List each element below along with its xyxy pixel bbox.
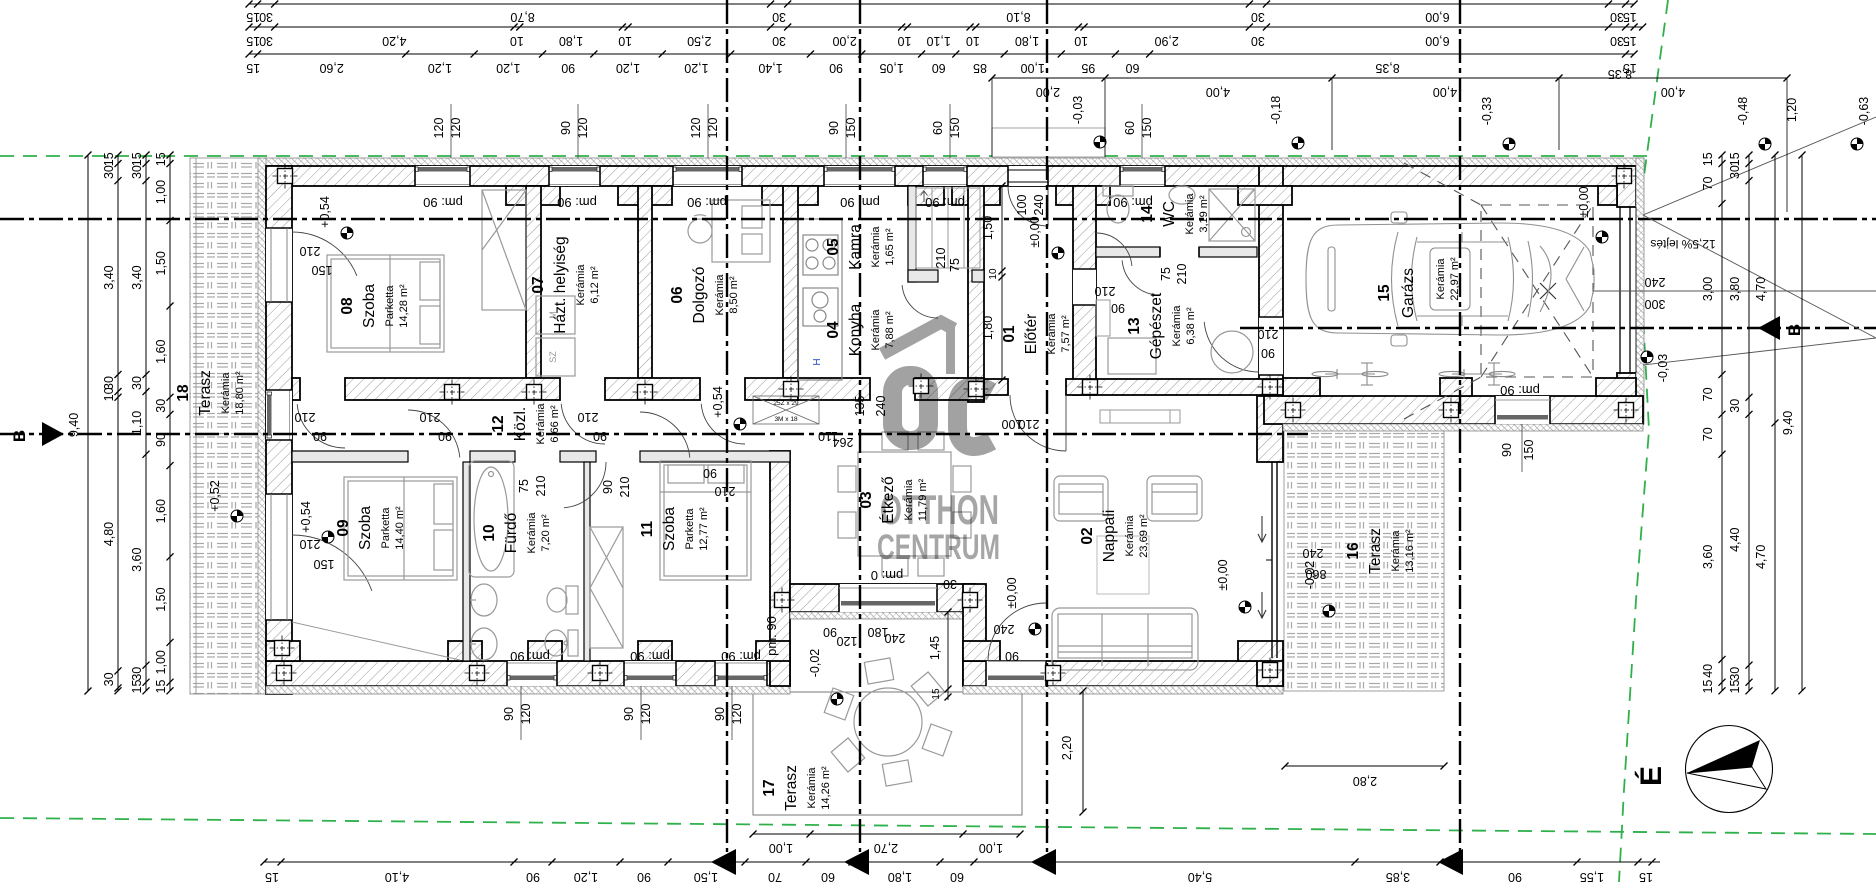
svg-text:1,20: 1,20 [616,61,640,75]
partition konyha|eloter [968,186,984,402]
window room 11 90/120 [715,661,767,686]
svg-text:3,85: 3,85 [1386,870,1410,882]
svg-text:15: 15 [1376,284,1393,302]
pier axis mark [272,661,297,686]
room label 11 Szoba [639,507,710,551]
svg-text:Szoba: Szoba [357,506,374,550]
sinks room 10 [470,584,497,660]
nappali armchair 1 [1054,476,1108,521]
svg-text:15: 15 [246,61,260,75]
svg-text:07: 07 [530,276,547,293]
room label 17 Terasz [761,765,832,811]
svg-text:8,35: 8,35 [1608,67,1632,81]
structural axis V4 [1459,0,1461,852]
svg-text:1,60: 1,60 [154,499,168,523]
svg-text:135: 135 [853,396,867,417]
svg-text:13,16 m²: 13,16 m² [1404,529,1416,573]
svg-text:Kerámia: Kerámia [870,226,882,268]
svg-text:210: 210 [300,244,321,258]
svg-text:±0,00: ±0,00 [1005,577,1019,608]
level benchmark [1596,231,1608,243]
svg-text:08: 08 [339,297,356,315]
svg-text:860: 860 [1306,567,1327,581]
svg-text:8,70: 8,70 [510,10,534,24]
room label 14 WC [1139,193,1210,235]
konyha south wall piers [798,378,870,400]
svg-text:1,20: 1,20 [496,61,520,75]
svg-text:15: 15 [1701,680,1715,694]
bottom wall insulation right [963,686,1283,694]
garage south window 90/150 [1495,396,1550,424]
room label 04 Konyha [825,303,896,356]
svg-text:30: 30 [259,10,273,24]
svg-text:240: 240 [1303,546,1324,560]
bed room 11 [660,461,751,580]
svg-text:90: 90 [827,121,841,135]
svg-text:1,80: 1,80 [559,34,583,48]
level benchmark [1029,623,1041,635]
door swing room 11 [640,412,690,458]
pier axis mark [770,588,795,613]
axis marker triangle x=860 [844,849,869,875]
garage south insulation [1283,424,1643,431]
room label 10 Fürdő [481,512,552,554]
level benchmark [1292,137,1304,149]
right dimension column 3 [1754,152,1779,695]
svg-text:Parketta: Parketta [684,508,696,550]
svg-text:90: 90 [526,870,540,882]
svg-text:Szoba: Szoba [361,284,378,328]
door swing garage west [1204,322,1259,372]
svg-text:1,00: 1,00 [154,650,168,674]
svg-text:90: 90 [829,61,843,75]
svg-text:1,20: 1,20 [428,61,452,75]
bottom wall insulation left [266,686,790,694]
room label 07 Házt. helyiség [530,236,601,333]
svg-text:1,50: 1,50 [154,251,168,275]
svg-text:90: 90 [313,429,327,443]
svg-text:6,00: 6,00 [1425,34,1449,48]
svg-text:90: 90 [622,707,636,721]
wardrobe room 08 [482,190,526,310]
bay vertical chain [928,609,952,701]
svg-text:210: 210 [1258,327,1279,341]
nappali armchair 2 [1147,476,1202,521]
svg-text:15: 15 [246,10,260,24]
svg-text:Terasz: Terasz [1367,528,1384,574]
svg-text:1,10: 1,10 [130,411,144,435]
svg-text:15: 15 [931,688,942,700]
svg-text:Közl.: Közl. [512,407,529,441]
level benchmark [1503,138,1515,150]
svg-text:Terasz: Terasz [197,370,214,416]
svg-text:3,40: 3,40 [102,265,116,289]
svg-text:22,97 m²: 22,97 m² [1449,257,1461,301]
dimension chain top row 1 [246,1,1638,25]
svg-text:15: 15 [1639,870,1653,882]
svg-text:8,10: 8,10 [1006,10,1030,24]
svg-text:17: 17 [761,779,778,796]
svg-text:02: 02 [1079,527,1096,544]
garage east insulation [1636,158,1644,424]
left dimension column 9,40 [67,152,92,695]
svg-text:60: 60 [932,61,946,75]
svg-text:210: 210 [1095,284,1116,298]
nappali sofa [1052,608,1198,670]
gepeszet boiler [1211,331,1253,373]
svg-text:pm: 0: pm: 0 [871,568,904,583]
bicycles [1312,363,1515,385]
svg-text:4,70: 4,70 [1754,277,1768,301]
svg-text:75: 75 [948,258,962,272]
svg-text:OTTHON: OTTHON [880,486,999,533]
window room 10 90/120 [624,661,676,686]
svg-text:1,20: 1,20 [684,61,708,75]
svg-text:1,80: 1,80 [1015,34,1039,48]
svg-text:150: 150 [312,263,333,277]
right dimension column 1 [1701,152,1726,695]
svg-text:30: 30 [130,376,144,390]
svg-text:2,70: 2,70 [874,841,898,855]
svg-text:B: B [10,430,29,442]
svg-text:-0,18: -0,18 [1269,96,1283,125]
svg-text:30: 30 [1610,34,1624,48]
svg-text:85: 85 [973,61,987,75]
door swing corridor to 06 [701,404,745,444]
garage south wall [1264,396,1643,424]
garage door opening east 240/300 [1619,207,1621,373]
svg-text:2,00: 2,00 [1036,85,1060,99]
svg-text:30: 30 [772,34,786,48]
section mark B left [42,422,64,446]
door opening wc [1160,247,1199,257]
bathtub room 10 [469,461,514,577]
svg-text:12,5% lejtés: 12,5% lejtés [1650,237,1715,251]
svg-text:-0,02: -0,02 [808,649,822,678]
svg-text:15: 15 [1728,152,1742,166]
pier axis mark [1439,398,1464,423]
svg-text:8,35: 8,35 [1375,61,1399,75]
svg-text:300: 300 [1645,297,1666,311]
kamra south wall [908,270,938,282]
svg-text:6,00: 6,00 [1425,10,1449,24]
svg-text:4,70: 4,70 [1754,545,1768,569]
nappali terrace door opening 240 [986,661,1046,686]
level benchmark [231,510,243,522]
opening room 09 west door+window 150/210 [266,494,292,620]
svg-text:7,88 m²: 7,88 m² [884,311,896,349]
svg-text:70: 70 [1701,177,1715,191]
svg-text:90: 90 [1005,649,1019,663]
svg-text:40: 40 [1701,664,1715,678]
svg-text:3,80: 3,80 [1728,277,1742,301]
svg-text:01: 01 [1001,325,1018,343]
pier axis mark [465,661,490,686]
opening room 08 west door 150/210 [266,228,292,302]
svg-text:70: 70 [768,870,782,882]
svg-text:Előtér: Előtér [1023,314,1040,355]
svg-text:120: 120 [689,118,703,139]
svg-text:Parketta: Parketta [380,507,392,549]
dimension row 4 (2,00 / 4,00) [989,67,1791,212]
svg-text:3,19 m²: 3,19 m² [1198,195,1210,233]
svg-text:150: 150 [314,557,335,571]
svg-text:4,00: 4,00 [1661,85,1685,99]
svg-text:Parketta: Parketta [384,285,396,327]
bed room 09 [344,477,457,580]
dimension chain top row 2 [246,24,1647,49]
pier axis mark [588,661,613,686]
kamra south wall right stub [972,270,984,282]
svg-text:14,28 m²: 14,28 m² [398,284,410,328]
corridor south wall segments [292,451,408,462]
svg-text:11: 11 [639,520,656,537]
svg-text:05: 05 [825,238,842,256]
svg-text:3M x 18: 3M x 18 [774,416,798,423]
svg-text:Kerámia: Kerámia [1435,258,1447,300]
svg-text:+0,54: +0,54 [711,386,725,418]
partition wc|gepeszet [1096,247,1160,257]
svg-text:210: 210 [1175,264,1189,285]
svg-text:240: 240 [994,622,1015,636]
terasz 17 outline [753,692,1022,815]
svg-text:75: 75 [1159,267,1173,281]
svg-text:15: 15 [1701,152,1715,166]
partition 06|konyha [783,186,798,378]
svg-text:90: 90 [593,429,607,443]
svg-text:14,40 m²: 14,40 m² [394,506,406,550]
left dimension column 4 [154,152,174,695]
svg-text:B: B [1785,324,1804,336]
svg-text:30: 30 [1728,165,1742,179]
svg-text:4,80: 4,80 [102,522,116,546]
structural axis V1 [726,0,728,852]
structural axis H3 / section B-B right [1240,327,1876,329]
dimension chain bottom main row [261,859,1661,882]
svg-text:100: 100 [1015,195,1029,216]
svg-text:1,00: 1,00 [769,841,793,855]
svg-text:10: 10 [510,34,524,48]
dimension 2,20 vertical [1060,688,1087,816]
pier axis mark [1258,375,1283,400]
terasz 18 paving [190,158,260,694]
svg-text:15: 15 [246,34,260,48]
svg-text:pm: 90: pm: 90 [721,649,761,664]
svg-text:75: 75 [517,479,531,493]
pier axis mark [440,380,465,405]
svg-text:90: 90 [1508,870,1522,882]
room label 18 Terasz [175,370,246,416]
left outer wall [266,166,292,694]
pier axis mark [909,374,934,399]
room label 16 Terasz [1345,528,1416,574]
svg-text:15: 15 [1623,34,1637,48]
svg-text:90: 90 [637,870,651,882]
garage window labels [1500,424,1536,472]
garage roof overhang dashed projection [1404,163,1593,419]
svg-text:6,66 m²: 6,66 m² [549,405,561,443]
svg-text:3,40: 3,40 [130,265,144,289]
door swing bathroom 10 [564,462,606,508]
svg-text:90: 90 [502,707,516,721]
svg-text:30: 30 [154,399,168,413]
right dimension column 4 [1781,152,1806,695]
garage door projection lines [1593,117,1876,365]
svg-text:10: 10 [102,387,116,401]
svg-text:13: 13 [1126,317,1143,335]
svg-text:Kerámia: Kerámia [1124,515,1136,557]
terasz 16 paving [1284,430,1444,691]
door opening eloter-gepeszet [1073,269,1096,305]
window size labels 60/150 [931,104,962,158]
svg-text:2,60: 2,60 [319,61,343,75]
svg-text:6,12 m²: 6,12 m² [589,266,601,304]
section mark B right [1758,316,1780,340]
axis marker triangle x=727 [711,849,736,875]
door swing kamra [902,285,938,318]
etkezo bay south wall [790,584,975,612]
svg-text:04: 04 [825,321,842,339]
svg-text:±0,00: ±0,00 [1216,559,1230,590]
svg-text:Kerámia: Kerámia [1171,305,1183,347]
property boundary green dashed right [1619,0,1668,882]
svg-text:15: 15 [1728,680,1742,694]
svg-text:Kamra: Kamra [847,224,864,270]
svg-text:Kerámia: Kerámia [526,512,538,554]
svg-text:264: 264 [833,435,854,449]
left dimension column 2 [102,152,122,695]
svg-text:90: 90 [1500,443,1514,457]
svg-text:60: 60 [1123,121,1137,135]
kamra west wall [908,186,916,282]
nappali coffee table [1097,536,1149,594]
bidet room 10 [545,630,578,656]
washer/dryer room 07 [536,296,575,376]
bottom outer wall right part (nappali) [963,661,1283,686]
car in garage [1306,212,1594,346]
svg-text:pm: 90: pm: 90 [925,195,965,210]
corridor north wall segments [292,378,300,400]
window konyha 90/150 [824,166,895,186]
nappali east wall upper block [1257,379,1283,462]
svg-text:Fürdő: Fürdő [503,513,520,554]
svg-text:09: 09 [335,519,352,537]
garage west wall [1259,166,1283,396]
eloter inner vertical chain [981,183,1006,384]
entrance door swing [1008,186,1048,226]
svg-text:9,40: 9,40 [67,413,81,437]
window size labels 60/150 [1123,104,1154,158]
svg-text:pm: 90: pm: 90 [423,195,463,210]
svg-text:9,40: 9,40 [1781,411,1795,435]
svg-text:5,40: 5,40 [1188,870,1212,882]
svg-text:1,05: 1,05 [879,61,903,75]
svg-text:1,80: 1,80 [888,870,912,882]
level benchmark [1094,136,1106,148]
svg-text:pm: 90: pm: 90 [630,649,670,664]
compass rose [1686,726,1773,813]
svg-text:06: 06 [669,286,686,304]
svg-text:2,90: 2,90 [1154,34,1178,48]
car label box [1430,248,1470,310]
right dimension column 2 [1728,152,1753,695]
svg-text:210: 210 [420,410,441,424]
glass door arrow 1 [1258,516,1266,542]
partition 09|10 [463,462,470,661]
window kamra 60/150 [923,166,967,186]
svg-text:7,20 m²: 7,20 m² [540,514,552,552]
level benchmark [1323,605,1335,617]
svg-text:10: 10 [966,34,980,48]
svg-text:10: 10 [898,34,912,48]
level benchmark [1759,138,1771,150]
svg-text:2,80: 2,80 [1353,774,1377,788]
svg-text:1,10: 1,10 [926,34,950,48]
svg-text:60: 60 [1126,61,1140,75]
svg-text:30: 30 [943,577,957,591]
glass door arrow 2 [1258,592,1266,618]
room label 09 Szoba [335,506,406,550]
svg-text:12: 12 [490,415,507,432]
garage east wall upper block [1617,166,1636,207]
svg-text:+0,52: +0,52 [208,480,222,512]
dimension chain bottom terrace row [750,831,1024,856]
svg-text:10: 10 [1074,34,1088,48]
svg-text:2,20: 2,20 [1060,736,1074,760]
svg-text:18: 18 [175,384,192,402]
svg-text:SZ: SZ [548,351,558,363]
south wall stub eloter west [984,379,1008,395]
window size labels 90/120 [559,104,590,158]
level benchmark [1052,247,1064,259]
bay jog wall right [963,584,986,686]
svg-text:-0,03: -0,03 [1071,96,1085,125]
svg-text:pm: 90: pm: 90 [764,616,779,656]
svg-text:210: 210 [618,477,632,498]
pier axis mark [1281,398,1306,423]
pier axis mark [958,588,983,613]
svg-text:30: 30 [1610,10,1624,24]
level benchmark [1851,138,1863,150]
level benchmark [831,693,843,705]
kamra shelves [916,188,980,268]
svg-text:15: 15 [130,680,144,694]
svg-text:1,50: 1,50 [981,216,995,240]
svg-text:1,40: 1,40 [758,61,782,75]
svg-text:30: 30 [130,165,144,179]
door swing 09 west [292,535,372,591]
svg-text:60: 60 [821,870,835,882]
kitchen counter [798,219,842,380]
door swing wc [1122,260,1160,295]
dimension chain top row 3 [246,51,1638,76]
svg-text:pm: 90: pm: 90 [687,195,727,210]
svg-text:30: 30 [1251,34,1265,48]
axis marker triangle x=1454 [1438,849,1463,875]
svg-text:30: 30 [102,672,116,686]
svg-text:30: 30 [1728,667,1742,681]
level benchmark [734,418,746,430]
door swing 08 west [292,232,357,276]
svg-text:2,50: 2,50 [687,34,711,48]
svg-text:3,60: 3,60 [130,547,144,571]
svg-text:210: 210 [534,476,548,497]
svg-text:±0,00: ±0,00 [1028,216,1042,247]
window room 07 90/120 [549,166,600,186]
level benchmark [1239,601,1251,613]
window size labels 120/120 [689,104,720,158]
door swing corridor to 08 [297,404,345,448]
